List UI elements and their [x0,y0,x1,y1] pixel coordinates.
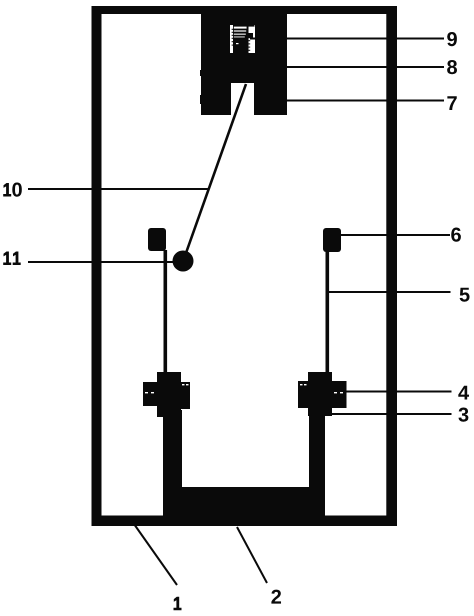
right vertical rod 5 [326,251,330,373]
leader line 5 [327,291,451,293]
left bearing center block [157,372,181,417]
leader line 10 [28,188,209,190]
left stop square [148,228,166,251]
outer housing frame 1 [92,6,398,526]
leader line 2 [237,527,267,583]
label 4 [458,386,469,400]
block edge ticks [200,70,201,76]
pendulum mass 11 [173,251,194,272]
label 10 digit 1 [3,183,11,197]
left support column [163,410,182,516]
right bearing left flange [298,381,308,408]
label 6 [451,228,461,242]
label 9 [447,32,457,46]
label 1 [174,597,182,611]
right bearing center block [308,372,332,416]
label 3 [458,408,468,422]
left bearing left flange 3 [143,382,157,406]
right bearing hatch marks [300,384,343,393]
left bearing hatch marks [145,384,189,393]
pendulum rod 10 [186,84,246,253]
right support column [309,410,325,516]
spring plunger column 8 [233,25,249,53]
label 7 [447,96,456,110]
label 2 [271,590,281,604]
left bearing right flange 4 [181,382,190,409]
leader line 8 [287,66,444,68]
leader line 11 [28,261,174,263]
label 10 digit 0 [12,183,22,197]
label 8 [447,60,457,74]
right bearing right flange 4 [332,381,347,408]
leader line 1 [134,524,177,585]
spring coil slots 9 [234,27,247,45]
leader line 4 [344,391,452,393]
leader line 3 [332,413,452,415]
leader line 6 [341,234,450,236]
leader line 9 [250,38,444,40]
label 5 [460,288,470,302]
label 11 digit 1a [3,252,11,266]
right stop square 6 [323,228,341,252]
upper mount block 7 [201,13,287,115]
base plate 2 [163,487,325,516]
spring serration ticks [232,29,251,51]
leader line 7 [287,100,444,102]
label 11 digit 1b [13,252,21,266]
spring housing top bar [233,25,255,27]
spring latch notch [249,33,254,38]
left vertical rod [164,250,168,373]
